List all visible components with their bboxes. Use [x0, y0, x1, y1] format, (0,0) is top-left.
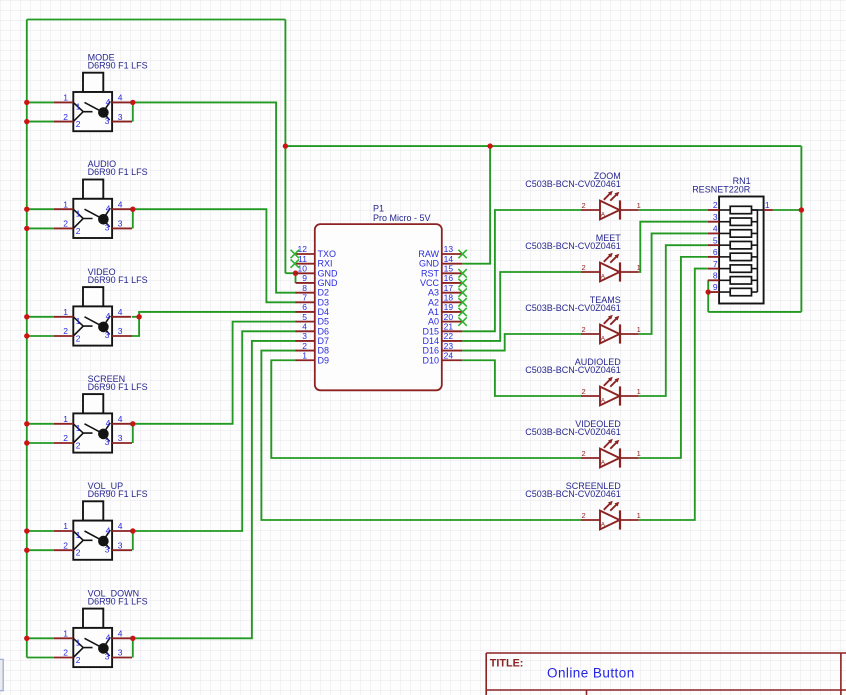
svg-text:1: 1 [63, 199, 68, 209]
junction bus at VOL_DOWN pin 1 [24, 636, 29, 641]
wire AUDIOLED cathode to RN1 pin 5 [639, 245, 708, 396]
P1 left pin 3 (D7) [296, 340, 315, 342]
switch VOL_DOWN (D6R90 F1 LFS) [54, 588, 148, 667]
RN1 resistor element pin 6 [719, 256, 730, 258]
P1 left pin 4 (D6) [296, 330, 315, 332]
P1 right pin 24 (D10) [442, 359, 463, 361]
svg-text:2: 2 [76, 226, 81, 236]
wire MODE pin4-pin3 loop [132, 102, 134, 121]
svg-text:20: 20 [444, 312, 454, 322]
svg-text:1: 1 [63, 93, 68, 103]
P1 left pin 12 (TXO) [296, 253, 315, 255]
svg-text:2: 2 [63, 326, 68, 336]
svg-text:3: 3 [118, 112, 123, 122]
svg-text:6: 6 [713, 247, 718, 257]
no-connect X on P1 pin 19 [458, 308, 466, 316]
P1 right pin 21 (D15) [442, 330, 463, 332]
P1 right pin 22 (D14) [442, 340, 463, 342]
wire GND stub to SCREEN pin 1 [27, 423, 54, 425]
svg-text:4: 4 [118, 199, 123, 209]
svg-text:3: 3 [105, 437, 110, 447]
svg-text:3: 3 [118, 540, 123, 550]
svg-text:5: 5 [713, 235, 718, 245]
svg-text:2: 2 [76, 655, 81, 665]
svg-text:C503B-BCN-CV0Z0461: C503B-BCN-CV0Z0461 [525, 241, 621, 251]
junction VIDEO pin4/pin3 tie [136, 314, 141, 319]
switch MODE (D6R90 F1 LFS) [54, 52, 148, 131]
svg-text:2: 2 [76, 548, 81, 558]
svg-text:3: 3 [118, 433, 123, 443]
wire MODE to D2 [133, 102, 297, 292]
LED ZOOM (C503B-BCN-CV0Z0461) [525, 171, 641, 220]
svg-text:9: 9 [713, 282, 718, 292]
wire AUDIO pin4-pin3 loop [132, 209, 134, 228]
svg-text:4: 4 [106, 204, 111, 214]
svg-text:14: 14 [444, 254, 454, 264]
svg-text:4: 4 [118, 307, 123, 317]
P1 left pin 8 (D2) [296, 292, 315, 294]
svg-text:1: 1 [76, 102, 81, 112]
svg-text:3: 3 [105, 544, 110, 554]
svg-text:2: 2 [582, 263, 586, 272]
junction AUDIO pin4/pin3 tie [130, 207, 135, 212]
LED VIDEOLED (C503B-BCN-CV0Z0461) [525, 419, 641, 468]
svg-text:5: 5 [302, 312, 307, 322]
svg-text:7: 7 [713, 259, 718, 269]
svg-text:4: 4 [118, 414, 123, 424]
wire GND riser to RN1 pin 8 [707, 280, 709, 312]
P1 left pin 7 (D3) [296, 301, 315, 303]
svg-text:19: 19 [444, 302, 454, 312]
svg-text:TXO: TXO [318, 249, 337, 259]
RN1 resistor element pin 7 [719, 268, 730, 270]
microcontroller P1 Pro Micro - 5V [296, 204, 463, 391]
wire GND stub to AUDIO pin 1 [27, 208, 54, 210]
svg-text:18: 18 [444, 293, 454, 303]
svg-text:12: 12 [298, 244, 308, 254]
svg-text:D15: D15 [422, 326, 439, 336]
RN1 resistor element pin 9 [719, 291, 730, 293]
svg-text:1: 1 [637, 449, 641, 458]
svg-text:6: 6 [302, 302, 307, 312]
svg-text:RESNET220R: RESNET220R [692, 185, 751, 195]
svg-text:D6R90 F1 LFS: D6R90 F1 LFS [88, 596, 148, 606]
junction bus at VOL_UP pin 2 [24, 548, 29, 553]
P1 right pin 23 (D16) [442, 350, 463, 352]
switch AUDIO (D6R90 F1 LFS) [54, 159, 148, 238]
svg-text:D6: D6 [318, 326, 330, 336]
RN1 resistor element pin 2 [719, 209, 730, 211]
wire VIDEO to D4 [139, 312, 296, 317]
svg-text:2: 2 [63, 219, 68, 229]
svg-text:D7: D7 [318, 336, 330, 346]
svg-text:2: 2 [76, 334, 81, 344]
P1 left pin 10 (GND) [296, 272, 315, 274]
junction bus at MODE pin 1 [24, 100, 29, 105]
switch SCREEN (D6R90 F1 LFS) [54, 374, 148, 453]
svg-text:D3: D3 [318, 297, 330, 307]
svg-text:22: 22 [444, 331, 454, 341]
P1 right pin 19 (A1) [442, 311, 463, 313]
svg-text:Pro Micro - 5V: Pro Micro - 5V [373, 213, 431, 223]
wire GND bottom horizontal to RN1 [708, 311, 801, 313]
svg-text:2: 2 [63, 540, 68, 550]
svg-text:2: 2 [582, 449, 586, 458]
wire VOL_DOWN to D7 [133, 341, 297, 638]
svg-text:1: 1 [76, 638, 81, 648]
svg-text:C503B-BCN-CV0Z0461: C503B-BCN-CV0Z0461 [525, 489, 621, 499]
svg-text:13: 13 [444, 244, 454, 254]
svg-text:16: 16 [444, 273, 454, 283]
no-connect X on P1 pin 17 [458, 288, 466, 296]
P1 left pin 5 (D5) [296, 321, 315, 323]
svg-text:8: 8 [302, 283, 307, 293]
P1 right pin 15 (RST) [442, 272, 463, 274]
P1 left pin 6 (D4) [296, 311, 315, 313]
wire GND stub to VOL_UP pin 2 [27, 549, 54, 551]
RN1 resistor element pin 3 [719, 221, 730, 223]
junction GND at Pro Micro pin 10 [293, 271, 298, 276]
svg-text:1: 1 [637, 325, 641, 334]
svg-text:2: 2 [76, 441, 81, 451]
wire GND stub to MODE pin 1 [27, 101, 54, 103]
wire GND into pin 10 [285, 272, 296, 274]
svg-text:A: A [601, 274, 606, 281]
svg-text:C503B-BCN-CV0Z0461: C503B-BCN-CV0Z0461 [525, 179, 621, 189]
wire GND stub to VOL_DOWN pin 1 [27, 637, 54, 639]
P1 left pin 2 (D8) [296, 350, 315, 352]
svg-text:GND: GND [419, 259, 440, 269]
LED SCREENLED (C503B-BCN-CV0Z0461) [525, 481, 641, 530]
wire D14 to MEET anode [462, 272, 581, 341]
svg-text:TITLE:: TITLE: [490, 657, 524, 669]
svg-text:4: 4 [106, 525, 111, 535]
svg-text:A2: A2 [428, 297, 439, 307]
title block frame [486, 653, 846, 695]
wire TEAMS cathode to RN1 pin 4 [639, 233, 708, 334]
wire SCREEN pin4-pin3 loop [132, 424, 134, 443]
svg-text:D6R90 F1 LFS: D6R90 F1 LFS [88, 275, 148, 285]
wire GND right vertical [800, 146, 802, 312]
svg-text:1: 1 [637, 387, 641, 396]
no-connect X on P1 pin 18 [458, 298, 466, 306]
no-connect X on P1 pin 16 [458, 279, 466, 287]
svg-text:GND: GND [318, 278, 339, 288]
svg-text:4: 4 [302, 321, 307, 331]
junction GND feeder at pin 14 drop [487, 143, 492, 148]
wire AUDIO to D3 [133, 209, 297, 302]
svg-text:3: 3 [105, 116, 110, 126]
svg-text:1: 1 [637, 511, 641, 520]
no-connect X on P1 pin 15 [458, 269, 466, 277]
wire D9 to VIDEOLED anode [271, 360, 581, 458]
wire D10 to AUDIOLED anode [462, 360, 581, 396]
wire GND stub to AUDIO pin 2 [27, 227, 54, 229]
junction bus at AUDIO pin 1 [24, 207, 29, 212]
svg-text:C503B-BCN-CV0Z0461: C503B-BCN-CV0Z0461 [525, 365, 621, 375]
junction bus at VIDEO pin 2 [24, 333, 29, 338]
svg-text:4: 4 [118, 93, 123, 103]
svg-text:2: 2 [713, 200, 718, 210]
svg-text:2: 2 [76, 119, 81, 129]
wire VOL_DOWN pin4-pin3 loop [132, 638, 134, 657]
wire VOL_UP to D6 [133, 331, 297, 531]
wire GND stub to VOL_DOWN pin 2 [27, 657, 54, 659]
svg-text:4: 4 [118, 521, 123, 531]
wire SCREEN to D5 [133, 322, 297, 424]
junction GND at RN1 pin 9 [706, 289, 711, 294]
junction GND at RN1 pin 1 [799, 207, 804, 212]
no-connect X on P1 pin 11 [291, 259, 299, 267]
RN1 resistor element pin 8 [719, 279, 730, 281]
svg-text:RAW: RAW [418, 249, 439, 259]
junction VOL_DOWN pin4/pin3 tie [130, 636, 135, 641]
svg-text:D14: D14 [422, 336, 439, 346]
svg-text:1: 1 [637, 263, 641, 272]
svg-text:A3: A3 [428, 288, 439, 298]
no-connect X on P1 pin 13 [458, 250, 466, 258]
svg-text:17: 17 [444, 283, 454, 293]
svg-text:D2: D2 [318, 288, 330, 298]
svg-text:D5: D5 [318, 317, 330, 327]
P1 left pin 11 (RXI) [296, 263, 315, 265]
wire VIDEOLED cathode to RN1 pin 6 [639, 257, 708, 458]
wire GND stub to SCREEN pin 2 [27, 442, 54, 444]
junction bus at MODE pin 2 [24, 119, 29, 124]
svg-text:10: 10 [298, 264, 308, 274]
P1 right pin 13 (RAW) [442, 253, 463, 255]
wire GND left bus vertical [26, 20, 28, 658]
P1 right pin 14 (GND) [442, 263, 463, 265]
svg-text:4: 4 [106, 311, 111, 321]
svg-text:A: A [601, 336, 606, 343]
svg-text:1: 1 [765, 200, 770, 210]
junction GND feeder left [283, 143, 288, 148]
svg-text:1: 1 [63, 629, 68, 639]
svg-text:4: 4 [106, 418, 111, 428]
svg-text:D6R90 F1 LFS: D6R90 F1 LFS [88, 60, 148, 70]
resistor network RN1 RESNET220R [692, 176, 773, 304]
svg-text:1: 1 [76, 208, 81, 218]
svg-text:1: 1 [63, 521, 68, 531]
P1 right pin 18 (A2) [442, 301, 463, 303]
svg-text:4: 4 [118, 629, 123, 639]
P1 left pin 9 (GND) [296, 282, 315, 284]
svg-text:A0: A0 [428, 317, 439, 327]
svg-text:3: 3 [105, 223, 110, 233]
svg-text:11: 11 [298, 254, 307, 264]
junction MODE pin4/pin3 tie [130, 100, 135, 105]
svg-text:2: 2 [63, 433, 68, 443]
wire GND vertical to Pro Micro GND [284, 20, 286, 274]
svg-text:15: 15 [444, 264, 454, 274]
svg-text:21: 21 [444, 321, 454, 331]
svg-text:GND: GND [318, 268, 339, 278]
junction bus at VIDEO pin 1 [24, 314, 29, 319]
svg-text:D6R90 F1 LFS: D6R90 F1 LFS [88, 489, 148, 499]
svg-text:A1: A1 [428, 307, 439, 317]
svg-text:7: 7 [302, 293, 307, 303]
svg-text:2: 2 [63, 648, 68, 658]
wire D8 to SCREENLED anode [261, 351, 581, 520]
svg-text:8: 8 [713, 271, 718, 281]
svg-text:1: 1 [63, 414, 68, 424]
no-connect X on P1 pin 12 [291, 250, 299, 258]
wire VOL_UP pin4-pin3 loop [132, 531, 134, 550]
svg-text:1: 1 [637, 201, 641, 210]
svg-text:D10: D10 [422, 355, 439, 365]
svg-text:3: 3 [105, 652, 110, 662]
P1 right pin 20 (A0) [442, 321, 463, 323]
svg-text:D9: D9 [318, 355, 330, 365]
svg-text:1: 1 [76, 316, 81, 326]
no-connect X on P1 pin 20 [458, 317, 466, 325]
P1 left pin 1 (D9) [296, 359, 315, 361]
svg-text:1: 1 [63, 307, 68, 317]
svg-text:3: 3 [302, 331, 307, 341]
svg-text:1: 1 [302, 350, 307, 360]
svg-text:C503B-BCN-CV0Z0461: C503B-BCN-CV0Z0461 [525, 303, 621, 313]
svg-text:2: 2 [582, 387, 586, 396]
junction bus at SCREEN pin 2 [24, 440, 29, 445]
junction bus at AUDIO pin 2 [24, 226, 29, 231]
svg-text:24: 24 [444, 350, 454, 360]
svg-text:3: 3 [118, 326, 123, 336]
svg-text:D4: D4 [318, 307, 330, 317]
svg-text:4: 4 [106, 97, 111, 107]
wire ZOOM cathode to RN1 pin 2 [639, 209, 708, 211]
wire D15 to ZOOM anode [462, 210, 581, 331]
wire GND horizontal feeder [285, 145, 801, 147]
svg-text:2: 2 [582, 511, 586, 520]
wire RN1 pin 1 wire [773, 209, 802, 211]
RN1 resistor element pin 5 [719, 244, 730, 246]
svg-text:2: 2 [302, 341, 307, 351]
svg-text:A: A [601, 398, 606, 405]
P1 right pin 17 (A3) [442, 292, 463, 294]
svg-text:A: A [601, 212, 606, 219]
svg-text:A: A [601, 460, 606, 467]
svg-text:D16: D16 [422, 346, 439, 356]
svg-text:VCC: VCC [420, 278, 440, 288]
wire GND stub to VIDEO pin 2 [27, 335, 54, 337]
LED TEAMS (C503B-BCN-CV0Z0461) [525, 295, 641, 344]
svg-text:4: 4 [106, 633, 111, 643]
svg-text:C503B-BCN-CV0Z0461: C503B-BCN-CV0Z0461 [525, 427, 621, 437]
wire VIDEO pin4-pin3 loop [132, 317, 139, 336]
svg-text:D6R90 F1 LFS: D6R90 F1 LFS [88, 167, 148, 177]
P1 right pin 16 (VCC) [442, 282, 463, 284]
svg-text:1: 1 [76, 530, 81, 540]
LED AUDIOLED (C503B-BCN-CV0Z0461) [525, 357, 641, 406]
wire SCREENLED cathode to RN1 pin 7 [639, 269, 708, 520]
svg-text:3: 3 [118, 648, 123, 658]
junction bus at VOL_UP pin 1 [24, 528, 29, 533]
svg-text:3: 3 [713, 212, 718, 222]
svg-text:4: 4 [713, 224, 718, 234]
junction VOL_UP pin4/pin3 tie [130, 528, 135, 533]
svg-text:Online Button: Online Button [547, 665, 635, 680]
svg-text:RXI: RXI [318, 259, 333, 269]
wire GND stub to VIDEO pin 1 [27, 316, 54, 318]
LED MEET (C503B-BCN-CV0Z0461) [525, 233, 641, 282]
svg-text:2: 2 [63, 112, 68, 122]
svg-text:23: 23 [444, 341, 454, 351]
svg-text:A: A [601, 522, 606, 529]
svg-text:9: 9 [302, 273, 307, 283]
junction SCREEN pin4/pin3 tie [130, 421, 135, 426]
svg-text:3: 3 [118, 219, 123, 229]
switch VIDEO (D6R90 F1 LFS) [54, 267, 148, 346]
switch VOL_UP (D6R90 F1 LFS) [54, 481, 148, 560]
wire GND stub to MODE pin 2 [27, 121, 54, 123]
junction bus at SCREEN pin 1 [24, 421, 29, 426]
canvas side panel tab [0, 659, 3, 690]
wire GND drop to pin 14 [462, 146, 490, 264]
wire GND stub to VOL_UP pin 1 [27, 530, 54, 532]
wire MEET cathode to RN1 pin 3 [639, 222, 708, 272]
svg-text:2: 2 [582, 201, 586, 210]
svg-text:RST: RST [421, 268, 440, 278]
svg-text:2: 2 [582, 325, 586, 334]
svg-text:3: 3 [105, 330, 110, 340]
svg-text:D8: D8 [318, 346, 330, 356]
wire GND jumper pin10 to pin9 [295, 273, 297, 283]
svg-text:1: 1 [76, 423, 81, 433]
svg-text:D6R90 F1 LFS: D6R90 F1 LFS [88, 382, 148, 392]
wire D16 to TEAMS anode [462, 334, 581, 351]
RN1 pin 1 (common) [764, 209, 773, 211]
wire GND top horizontal [27, 19, 286, 21]
RN1 resistor element pin 4 [719, 232, 730, 234]
